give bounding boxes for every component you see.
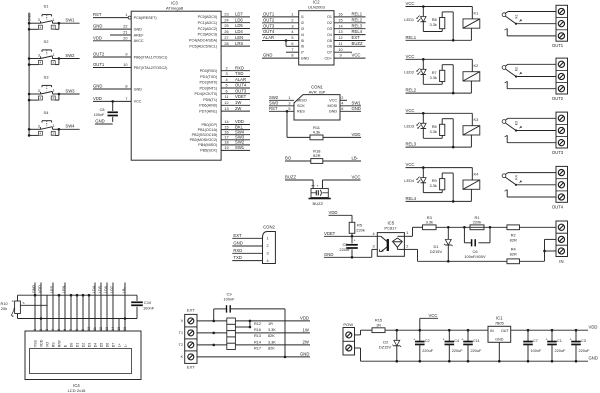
svg-text:CD+: CD+ [324, 56, 332, 60]
junction LCD GND bus [70, 294, 73, 297]
IC2 pin 6 I6 [286, 45, 299, 47]
svg-text:+: + [316, 184, 318, 188]
svg-text:19: 19 [224, 146, 228, 150]
svg-text:7: 7 [125, 97, 127, 101]
svg-text:K4: K4 [474, 171, 480, 176]
wire T2 row / net 2W [197, 344, 310, 346]
LCD pin 1 VSS wire [34, 283, 36, 332]
svg-text:I3: I3 [301, 27, 304, 31]
svg-text:11: 11 [225, 95, 229, 99]
svg-text:K2: K2 [514, 67, 518, 71]
EXT screw V [188, 318, 194, 324]
svg-text:D4: D4 [93, 343, 97, 348]
IC2 pin 13 O4 [334, 34, 366, 36]
svg-text:RXD: RXD [235, 65, 244, 70]
svg-text:GND: GND [352, 106, 361, 111]
svg-text:REL2: REL2 [352, 17, 363, 22]
svg-text:5: 5 [288, 107, 290, 111]
svg-text:+: + [443, 338, 445, 342]
svg-text:27: 27 [224, 36, 228, 40]
svg-text:VCC: VCC [406, 54, 415, 59]
svg-text:14: 14 [111, 327, 115, 331]
LCD pin 16 L- wire [124, 283, 126, 332]
CON1 pin 6 GND [340, 110, 361, 112]
svg-text:RST: RST [269, 106, 278, 111]
IC3 pin 9 PB6(XTAL1/TOSC1) [93, 56, 131, 58]
svg-text:C11: C11 [473, 339, 480, 343]
IC2 pin 3 I3 [262, 28, 299, 30]
IC2 pin 5 I5 [262, 40, 299, 42]
junction LCD GND bus [34, 294, 37, 297]
svg-text:K3: K3 [514, 121, 518, 125]
svg-text:9: 9 [125, 53, 127, 57]
wire V row / net VDD [197, 320, 310, 322]
svg-text:4: 4 [40, 25, 42, 29]
svg-text:OUT1: OUT1 [263, 12, 275, 17]
resistor R2 82R [507, 225, 520, 230]
svg-text:AVR_ISP: AVR_ISP [309, 89, 326, 94]
svg-text:1W: 1W [303, 328, 309, 333]
svg-text:I5: I5 [301, 39, 304, 43]
svg-text:4: 4 [40, 132, 42, 136]
svg-text:12: 12 [338, 36, 342, 40]
net SW2 [59, 58, 80, 60]
LED LED3 [422, 113, 424, 123]
svg-text:VDD: VDD [93, 35, 102, 40]
svg-text:I6: I6 [301, 45, 304, 49]
svg-text:GND: GND [32, 284, 36, 293]
svg-text:LEN: LEN [62, 285, 66, 293]
svg-text:RXD: RXD [233, 248, 242, 253]
svg-text:OUT4: OUT4 [552, 204, 564, 209]
svg-text:3: 3 [266, 252, 268, 256]
svg-text:15: 15 [224, 125, 228, 129]
svg-text:S: S [23, 301, 25, 305]
svg-text:BUZZ: BUZZ [313, 201, 324, 206]
IC3 pin 18 PB4(MISO) [221, 144, 250, 146]
svg-text:D5: D5 [99, 343, 103, 348]
svg-text:AVCC: AVCC [134, 39, 144, 43]
svg-text:I2: I2 [301, 21, 304, 25]
svg-text:ALAR: ALAR [263, 35, 274, 40]
svg-text:3: 3 [291, 24, 293, 28]
LCD pin 13 D6 wire [106, 283, 108, 332]
svg-text:BUZZ: BUZZ [352, 41, 363, 46]
potentiometer R10 20k [17, 295, 19, 301]
svg-text:3.3k: 3.3k [430, 22, 437, 27]
svg-text:5: 5 [57, 329, 61, 331]
junction S2 [28, 57, 31, 60]
svg-text:2W: 2W [303, 340, 309, 345]
svg-text:8: 8 [291, 54, 293, 58]
svg-text:7805: 7805 [495, 320, 505, 325]
svg-text:O5: O5 [327, 39, 332, 43]
svg-text:S2: S2 [44, 39, 50, 44]
svg-text:PB1(OC1A): PB1(OC1A) [198, 128, 218, 132]
IC2 pin 10 O7 [334, 51, 352, 53]
svg-text:21: 21 [123, 31, 127, 35]
junction D1 top [447, 226, 450, 229]
svg-text:T2: T2 [179, 343, 183, 347]
svg-text:L+: L+ [117, 343, 121, 347]
R10 wiper wire [20, 304, 47, 306]
IC3 pin 2 PD0(RXD) [221, 70, 250, 72]
svg-text:13: 13 [105, 327, 109, 331]
svg-text:VCC: VCC [352, 53, 361, 58]
svg-text:PD2(INT0): PD2(INT0) [199, 81, 217, 85]
svg-text:SW3: SW3 [65, 88, 75, 93]
LCD pin 14 D7 wire [112, 283, 114, 332]
svg-text:REL3: REL3 [352, 23, 363, 28]
CON2 pin 4 TXD [232, 260, 262, 262]
svg-text:4: 4 [40, 96, 42, 100]
svg-text:ALAR: ALAR [235, 77, 246, 82]
resistor R4 82R [507, 259, 520, 264]
relay coil K3 [463, 126, 480, 135]
svg-text:PC817: PC817 [384, 226, 397, 231]
svg-text:VO: VO [45, 342, 49, 347]
IC3 pin 22 GND [93, 28, 131, 30]
resistor R15 1R [372, 328, 385, 333]
resistor R11 4.3k [286, 111, 288, 137]
wire POW plus [355, 334, 361, 336]
IC3 pin 15 PB1(OC1A) [221, 129, 250, 131]
svg-text:E: E [12, 314, 14, 318]
svg-text:2: 2 [52, 25, 54, 29]
junction LCD GND bus [82, 294, 85, 297]
svg-text:3: 3 [38, 54, 40, 58]
IC2 pin 4 I4 [262, 34, 299, 36]
LCD pin 3 VO wire [46, 295, 48, 331]
svg-text:4: 4 [40, 61, 42, 65]
junction C9 right GND [284, 356, 287, 359]
LCD pin 10 D3 wire [88, 295, 90, 331]
svg-text:100nF: 100nF [94, 113, 105, 117]
relay contact K2 [502, 66, 506, 70]
wire GND rail [361, 360, 589, 362]
svg-text:10: 10 [338, 48, 342, 52]
svg-text:PC5(ADC5/SCL): PC5(ADC5/SCL) [189, 44, 217, 48]
svg-text:BO: BO [285, 156, 292, 161]
svg-text:OUT3: OUT3 [263, 23, 275, 28]
IC3 pin 14 PB0(ICP) [221, 124, 250, 126]
svg-text:POW: POW [343, 322, 353, 327]
LCD pin 11 D4 wire [94, 283, 96, 332]
IC3 pin 3 PD1(TXD) [221, 76, 250, 78]
svg-text:16: 16 [338, 13, 342, 17]
svg-text:220uF: 220uF [422, 349, 433, 353]
svg-text:C8: C8 [100, 108, 105, 112]
svg-text:D2: D2 [81, 343, 85, 348]
junction LCD VDD line [40, 317, 43, 320]
IC3 pin 5 PD3(INT1) [221, 87, 250, 89]
LCD pin 4 RS wire [52, 283, 54, 332]
junction LCD GND bus [88, 294, 91, 297]
svg-text:T1: T1 [179, 331, 183, 335]
svg-text:LD6: LD6 [235, 17, 243, 22]
svg-text:220uF: 220uF [471, 349, 482, 353]
svg-text:25: 25 [224, 24, 228, 28]
svg-text:K1: K1 [474, 10, 479, 15]
svg-text:3.3k: 3.3k [426, 219, 433, 224]
display IC4 LCD 2x16 [25, 331, 141, 380]
zener diode D1 DZ15V [447, 227, 449, 239]
svg-text:O6: O6 [327, 45, 332, 49]
svg-text:+: + [461, 338, 463, 342]
svg-text:OUT3: OUT3 [235, 88, 247, 93]
svg-text:PD6(AIN0): PD6(AIN0) [199, 104, 217, 108]
svg-text:LRS: LRS [50, 285, 54, 293]
svg-text:GND: GND [263, 53, 272, 58]
svg-text:220uF: 220uF [339, 247, 351, 252]
svg-text:OUT2: OUT2 [93, 52, 105, 57]
svg-text:SW1: SW1 [65, 18, 75, 23]
svg-text:1: 1 [406, 231, 408, 235]
svg-text:O4: O4 [327, 33, 332, 37]
junction R1 left [463, 226, 466, 229]
svg-text:1: 1 [53, 89, 55, 93]
IC3 pin 4 PD2(INT0) [221, 81, 250, 83]
LCD pin 5 R/W wire [58, 295, 60, 331]
IC2 pin 9 CD+ [334, 57, 366, 59]
capacitor C4 220uF [448, 329, 451, 332]
svg-text:PC4(ADC4/SDA): PC4(ADC4/SDA) [189, 39, 217, 43]
svg-text:2: 2 [52, 61, 54, 65]
IC2 pin 15 O2 [334, 22, 366, 24]
svg-text:100nF: 100nF [223, 297, 235, 302]
relay coil K1 [463, 19, 480, 28]
junction VCC pin7 [111, 100, 114, 103]
svg-text:C2: C2 [425, 339, 430, 343]
IC3 pin 24 PC1(ADC1) [221, 22, 250, 24]
svg-text:3: 3 [373, 245, 375, 249]
IC3 pin 19 PB5(SCK) [221, 149, 250, 151]
svg-text:C1: C1 [557, 339, 562, 343]
svg-text:12: 12 [224, 101, 228, 105]
svg-text:GND: GND [495, 338, 504, 342]
CON1 pin 5 RES [269, 110, 294, 112]
svg-text:6: 6 [341, 107, 343, 111]
svg-text:VCC: VCC [406, 162, 415, 167]
terminal OUT4 [556, 166, 568, 202]
svg-text:GND: GND [134, 87, 143, 91]
svg-text:PB0(ICP): PB0(ICP) [202, 123, 218, 127]
svg-text:RS: RS [51, 342, 55, 348]
wire K row / net GND [197, 356, 310, 358]
svg-text:220uF: 220uF [579, 349, 590, 353]
svg-text:VCC: VCC [329, 99, 337, 103]
svg-text:SW4: SW4 [65, 124, 75, 129]
IC5 led [397, 235, 404, 237]
svg-text:VCC: VCC [429, 313, 438, 318]
junction LCD VDD line [124, 317, 127, 320]
IC3 pin 23 PC0(ADC0) [221, 16, 250, 18]
svg-text:100nF: 100nF [143, 305, 155, 310]
svg-text:GND: GND [28, 13, 32, 22]
svg-text:2: 2 [406, 245, 408, 249]
IC3 pin 7 VCC [93, 100, 131, 102]
svg-text:VDD: VDD [38, 285, 42, 293]
svg-text:7: 7 [291, 48, 293, 52]
svg-text:D3: D3 [87, 343, 91, 348]
zener diode D2 DZ15V [396, 329, 399, 332]
svg-text:O1: O1 [327, 15, 332, 19]
svg-text:REL1: REL1 [406, 35, 417, 40]
svg-text:1: 1 [33, 329, 37, 331]
svg-text:9: 9 [81, 329, 85, 331]
terminal OUT3 [556, 112, 568, 148]
svg-text:LD7: LD7 [235, 12, 243, 17]
svg-text:LEN: LEN [235, 35, 243, 40]
LCD pin 15 L+ wire [118, 319, 120, 332]
svg-text:D0: D0 [69, 343, 73, 348]
microcontroller IC3 ATmega8 [131, 11, 221, 160]
IC3 pin 16 PB2(SS/OC1B) [221, 134, 250, 136]
svg-text:VDET: VDET [324, 231, 336, 236]
IC2 pin 8 GND [262, 57, 299, 59]
svg-text:3: 3 [38, 89, 40, 93]
svg-text:PB7(XTAL2/TOSC2): PB7(XTAL2/TOSC2) [134, 66, 168, 70]
svg-text:OUT2: OUT2 [263, 17, 275, 22]
svg-text:S1: S1 [44, 4, 50, 9]
svg-text:18: 18 [224, 141, 228, 145]
svg-text:LED4: LED4 [404, 178, 415, 183]
IC3 reset bubble [128, 16, 131, 19]
junction REL2 [452, 92, 455, 95]
wire contact to terminal OUT2 [508, 63, 556, 65]
svg-text:220uF: 220uF [555, 349, 566, 353]
junction REL4 [452, 200, 455, 203]
svg-text:15: 15 [117, 327, 121, 331]
svg-text:O2: O2 [327, 21, 332, 25]
junction S3 [28, 93, 31, 96]
svg-text:VDD: VDD [300, 316, 309, 321]
capacitor C3 220uF [575, 329, 578, 332]
wire T1 row / net 1W [197, 332, 310, 334]
junction T1 [212, 332, 215, 335]
svg-text:20k: 20k [1, 306, 7, 311]
junction S1 [28, 22, 31, 25]
svg-text:+: + [413, 338, 415, 342]
svg-text:VSS: VSS [33, 340, 37, 348]
svg-text:5: 5 [291, 36, 293, 40]
svg-text:1: 1 [291, 13, 293, 17]
relay contact K3 [502, 120, 506, 124]
svg-text:R/W: R/W [57, 340, 61, 348]
svg-text:11: 11 [93, 327, 97, 331]
net SW3 [59, 93, 80, 95]
svg-text:PD5(T1): PD5(T1) [203, 98, 217, 102]
svg-text:GND: GND [300, 352, 309, 357]
svg-text:10: 10 [87, 327, 91, 331]
IC2 pin 12 O5 [334, 40, 366, 42]
svg-text:26: 26 [224, 30, 228, 34]
svg-text:+: + [354, 239, 356, 243]
svg-text:PD4(XCK/T0): PD4(XCK/T0) [195, 92, 218, 96]
IC3 pin 12 PD6(AIN0) [221, 104, 250, 106]
svg-text:PD1(TXD): PD1(TXD) [200, 75, 217, 79]
wire VCC rail [385, 329, 488, 331]
svg-text:REL3: REL3 [406, 142, 417, 147]
capacitor C7 100nF [527, 329, 530, 332]
svg-text:VDD: VDD [39, 339, 43, 347]
svg-text:LD4: LD4 [235, 29, 243, 34]
svg-text:100nF: 100nF [531, 349, 542, 353]
svg-text:O3: O3 [327, 27, 332, 31]
svg-text:1: 1 [53, 18, 55, 22]
svg-text:PC3(ADC3): PC3(ADC3) [198, 33, 218, 37]
svg-text:10: 10 [123, 63, 127, 67]
CON1 pin 1 MISO [269, 99, 294, 101]
LED LED4 [422, 168, 424, 178]
svg-text:OUT: OUT [501, 329, 510, 333]
optocoupler IC5 PC817 [377, 233, 404, 257]
svg-text:6: 6 [291, 42, 293, 46]
svg-text:LCD 2x16: LCD 2x16 [68, 388, 87, 393]
svg-text:GND: GND [589, 356, 598, 361]
LED LED1 [422, 7, 424, 17]
IC2 pin 14 O3 [334, 28, 366, 30]
svg-text:REL2: REL2 [406, 88, 417, 93]
svg-text:LED3: LED3 [404, 124, 414, 129]
junction S4 [28, 128, 31, 131]
svg-text:3.3k: 3.3k [430, 75, 437, 80]
junction R1 right [489, 226, 492, 229]
svg-text:R14: R14 [254, 340, 262, 344]
svg-text:GND: GND [95, 119, 104, 124]
wire POW minus [355, 347, 361, 349]
svg-text:8: 8 [125, 85, 127, 89]
svg-text:1W: 1W [235, 100, 241, 105]
svg-text:2: 2 [266, 244, 268, 248]
svg-text:OUT4: OUT4 [235, 83, 247, 88]
svg-text:VCC: VCC [352, 174, 361, 179]
IC3 pin 1 PC6(/RESET) [93, 17, 131, 19]
svg-text:28: 28 [224, 42, 228, 46]
svg-text:VCC: VCC [406, 1, 415, 6]
svg-text:1: 1 [53, 124, 55, 128]
junction LCD GND bus [58, 294, 61, 297]
svg-text:PC1(ADC1): PC1(ADC1) [198, 21, 218, 25]
svg-text:IN: IN [490, 329, 494, 333]
IC3 pin 17 PB3(MOSI/OC2) [221, 139, 250, 141]
IC3 pin 6 PD4(XCK/T0) [221, 93, 250, 95]
svg-text:SW1: SW1 [352, 100, 362, 105]
net SW4 [59, 128, 80, 130]
svg-text:+: + [569, 338, 571, 342]
relay contact K1 [502, 13, 506, 17]
junction RST pullup [286, 110, 289, 113]
IC3 pin 21 AREF [110, 34, 131, 36]
svg-text:VDD: VDD [93, 96, 102, 101]
svg-text:6: 6 [225, 89, 227, 93]
svg-text:LD7: LD7 [110, 286, 114, 293]
svg-text:A: A [12, 299, 14, 303]
svg-text:LED1: LED1 [404, 17, 414, 22]
wire LCD VDD line [18, 318, 138, 320]
svg-text:ATmega8: ATmega8 [166, 5, 184, 10]
svg-text:11: 11 [339, 42, 343, 46]
svg-text:R12: R12 [254, 322, 261, 326]
svg-text:VDET: VDET [235, 94, 247, 99]
IC1 GND pin wire [498, 342, 500, 361]
svg-text:82R: 82R [510, 238, 517, 243]
svg-text:GND: GND [93, 84, 102, 89]
driver IC2 ULN2003 [299, 11, 334, 65]
svg-text:SW2: SW2 [65, 53, 75, 58]
svg-text:3.3K: 3.3K [268, 328, 276, 332]
svg-text:15: 15 [338, 18, 342, 22]
